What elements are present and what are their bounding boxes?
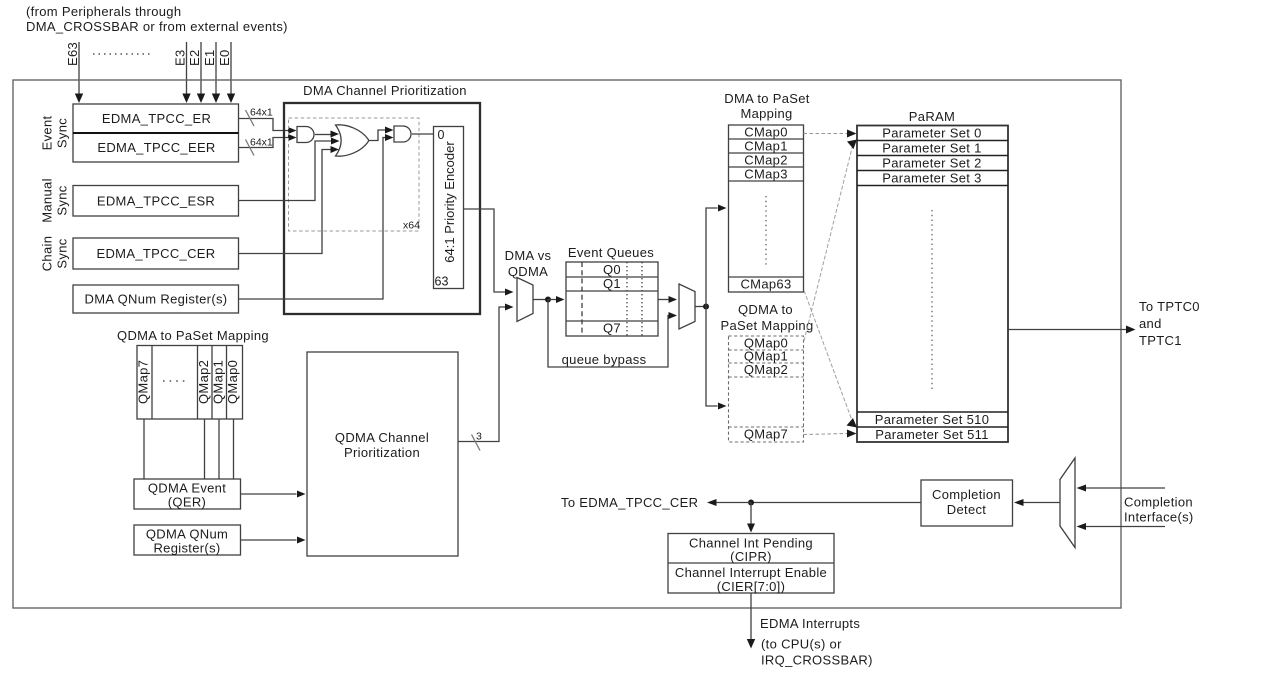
wire AND2 to priority encoder [412,133,434,135]
wire PaRAM to TPTC output [1008,299,1200,348]
wire mux1 output to event queues, junction node [533,296,565,303]
register EDMA_TPCC_CER [73,238,239,269]
node E63 input [65,42,83,103]
map line QMap0 to Parameter Set 0 [804,140,857,342]
svg-text:Mapping: Mapping [740,106,792,121]
svg-text:(from Peripherals through: (from Peripherals through [26,4,181,19]
svg-text:3: 3 [476,431,482,443]
wire QNum to QDMA prioritization [241,537,306,544]
label Event Sync [40,116,70,151]
svg-text:DMA QNum Register(s): DMA QNum Register(s) [85,292,228,307]
svg-text:CMap0: CMap0 [744,125,788,140]
register CIPR / CIER [668,534,834,595]
svg-text:(CIPR): (CIPR) [730,549,772,564]
svg-text:QDMA: QDMA [508,264,548,279]
svg-text:QMap7: QMap7 [136,360,151,404]
wire CIPR to EDMA interrupts output [747,593,873,668]
x64 replication dashed box [289,118,421,232]
svg-text:TPTC1: TPTC1 [1139,333,1182,348]
gate OR1 [336,125,369,156]
svg-text:DMA vs: DMA vs [505,248,552,263]
svg-text:To EDMA_TPCC_CER: To EDMA_TPCC_CER [561,495,698,510]
svg-text:Parameter Set 3: Parameter Set 3 [882,171,981,186]
register DMA QNum Register(s) [73,285,239,313]
wire QER to QDMA prioritization [241,491,306,498]
label Manual Sync [40,178,70,223]
svg-text:To TPTC0: To TPTC0 [1139,299,1200,314]
event queues block [566,245,658,336]
svg-text:PaRAM: PaRAM [909,109,955,124]
label Completion Interface(s) [1124,495,1194,525]
wire ER to AND1 with 64x1 slash [239,107,297,135]
svg-text:Parameter Set 1: Parameter Set 1 [882,141,981,156]
svg-text:PaSet Mapping: PaSet Mapping [720,318,813,333]
completion mux [1060,458,1075,548]
svg-text:DMA to PaSet: DMA to PaSet [724,91,810,106]
wire AND1 to OR1 [315,131,339,138]
svg-text:Interface(s): Interface(s) [1124,510,1194,525]
QDMA to PaSet Mapping block (QMap) [720,302,813,442]
wire completion detect to CER / CIPR junction [561,495,921,510]
DMA to PaSet Mapping block (CMap) [724,91,810,292]
svg-text:Q1: Q1 [603,276,621,291]
svg-text:QDMA to: QDMA to [738,302,793,317]
svg-text:E3: E3 [173,49,188,66]
svg-text:Parameter Set 511: Parameter Set 511 [875,427,989,442]
svg-text:Event: Event [40,116,55,151]
svg-text:IRQ_CROSSBAR): IRQ_CROSSBAR) [761,653,873,668]
wire EER to AND1 with 64x1 slash [239,134,297,156]
node E1 input [202,42,220,103]
svg-text:QMap1: QMap1 [211,360,226,404]
svg-text:Q0: Q0 [603,262,621,277]
wires QMap table to QDMA Event register [144,419,234,479]
register QDMA QNum Register(s) [134,525,241,556]
svg-text:CMap2: CMap2 [744,153,788,168]
svg-text:EDMA Interrupts: EDMA Interrupts [760,616,860,631]
svg-text:E0: E0 [217,49,232,66]
wire OR1 to AND2 [369,127,394,141]
svg-text:(to CPU(s) or: (to CPU(s) or [761,637,842,652]
svg-text:CMap63: CMap63 [740,277,791,292]
svg-text:DMA Channel Prioritization: DMA Channel Prioritization [303,83,467,98]
wire junction down to CIPR [747,503,755,533]
svg-text:64x1: 64x1 [250,137,273,149]
svg-text:Prioritization: Prioritization [344,445,420,460]
svg-text:64x1: 64x1 [250,107,273,119]
svg-text:EDMA_TPCC_ESR: EDMA_TPCC_ESR [97,194,215,209]
svg-text:x64: x64 [403,220,420,232]
svg-text:CMap1: CMap1 [744,139,788,154]
gate AND2 [394,126,411,142]
svg-text:and: and [1139,316,1162,331]
wire queue bypass [548,300,677,368]
register EDMA_TPCC_ESR [73,186,239,217]
map line QMap7 to Parameter Set 511 [804,430,857,438]
wire ESR to OR1 [239,138,340,201]
svg-text:DMA_CROSSBAR or from external: DMA_CROSSBAR or from external events) [26,19,288,34]
PaRAM block [857,109,1008,442]
svg-text:QDMA Channel: QDMA Channel [335,430,429,445]
wire junction to CMap block [706,205,727,307]
svg-text:QDMA QNum: QDMA QNum [146,527,228,542]
node E0 input [217,42,235,103]
svg-text:Q7: Q7 [603,321,621,336]
svg-text:(CIER[7:0]): (CIER[7:0]) [717,579,786,594]
EDMA TPCC outer boundary box [13,80,1121,608]
QDMA to PaSet Mapping table (rotated QMap labels) [117,328,269,419]
svg-text:Sync: Sync [55,185,70,215]
map line CMap0 to Parameter Set 0 [804,130,857,138]
wire completion interface input 1 [1077,485,1166,492]
svg-text:Detect: Detect [947,502,987,517]
DMA Channel Prioritization block [284,83,480,314]
svg-text:Completion: Completion [1124,495,1193,510]
svg-text:E2: E2 [187,49,202,66]
svg-text:EDMA_TPCC_CER: EDMA_TPCC_CER [96,246,215,261]
svg-text:(QER): (QER) [168,495,206,510]
map line CMap63 to Parameter Set 511 [804,291,857,428]
64:1 priority encoder [434,127,464,289]
gate AND1 [297,127,314,143]
svg-text:QMap0: QMap0 [225,360,240,404]
svg-text:QMap2: QMap2 [744,362,788,377]
register EDMA_TPCC_ER / EDMA_TPCC_EER [73,104,239,162]
svg-text:EDMA_TPCC_EER: EDMA_TPCC_EER [97,140,215,155]
svg-text:63: 63 [435,275,449,289]
wire CER to OR1 [239,146,340,254]
svg-text:Sync: Sync [55,118,70,148]
node E2 input [187,42,205,103]
svg-text:Parameter Set 510: Parameter Set 510 [875,412,990,427]
svg-text:Manual: Manual [40,178,55,223]
svg-text:QDMA Event: QDMA Event [148,481,226,496]
svg-text:Completion: Completion [932,487,1001,502]
svg-text:QMap7: QMap7 [744,427,788,442]
svg-text:EDMA_TPCC_ER: EDMA_TPCC_ER [102,111,211,126]
svg-text:Parameter Set 2: Parameter Set 2 [882,156,981,171]
svg-text:Channel Interrupt Enable: Channel Interrupt Enable [675,565,827,580]
label Chain Sync [40,236,70,272]
register QDMA Event (QER) [134,479,241,510]
svg-text:Parameter Set 0: Parameter Set 0 [882,126,981,141]
wire completion interface input 2 [1077,523,1166,530]
svg-text:Sync: Sync [55,238,70,268]
wire priority encoder to DMA/QDMA mux [464,209,514,296]
svg-text:queue bypass: queue bypass [562,352,647,367]
wire QDMA prioritization to mux (lower input) [458,304,514,451]
wire junction to QMap block [706,307,727,410]
svg-text:Register(s): Register(s) [153,541,220,556]
svg-text:CMap3: CMap3 [744,167,788,182]
dotted ellipsis between E63 and E3 [93,53,151,55]
wire mux2 output junction [695,304,709,310]
svg-text:E63: E63 [65,42,80,66]
mux DMA vs QDMA [505,248,552,322]
wire mux3 to completion detect [1014,499,1060,506]
svg-text:Event Queues: Event Queues [568,245,654,260]
node E3 input [173,42,191,103]
svg-text:0: 0 [438,128,445,142]
wire DMA QNum to AND2 [239,134,394,299]
svg-text:QDMA to PaSet Mapping: QDMA to PaSet Mapping [117,328,269,343]
svg-text:E1: E1 [202,49,217,66]
Completion Detect block [921,480,1013,526]
svg-text:QMap2: QMap2 [196,360,211,404]
QDMA Channel Prioritization block [307,352,458,556]
svg-text:Chain: Chain [40,236,55,272]
svg-text:64:1 Priority Encoder: 64:1 Priority Encoder [442,141,457,263]
mux after event queues [679,284,695,329]
wire event queues to mux2 [658,296,677,303]
